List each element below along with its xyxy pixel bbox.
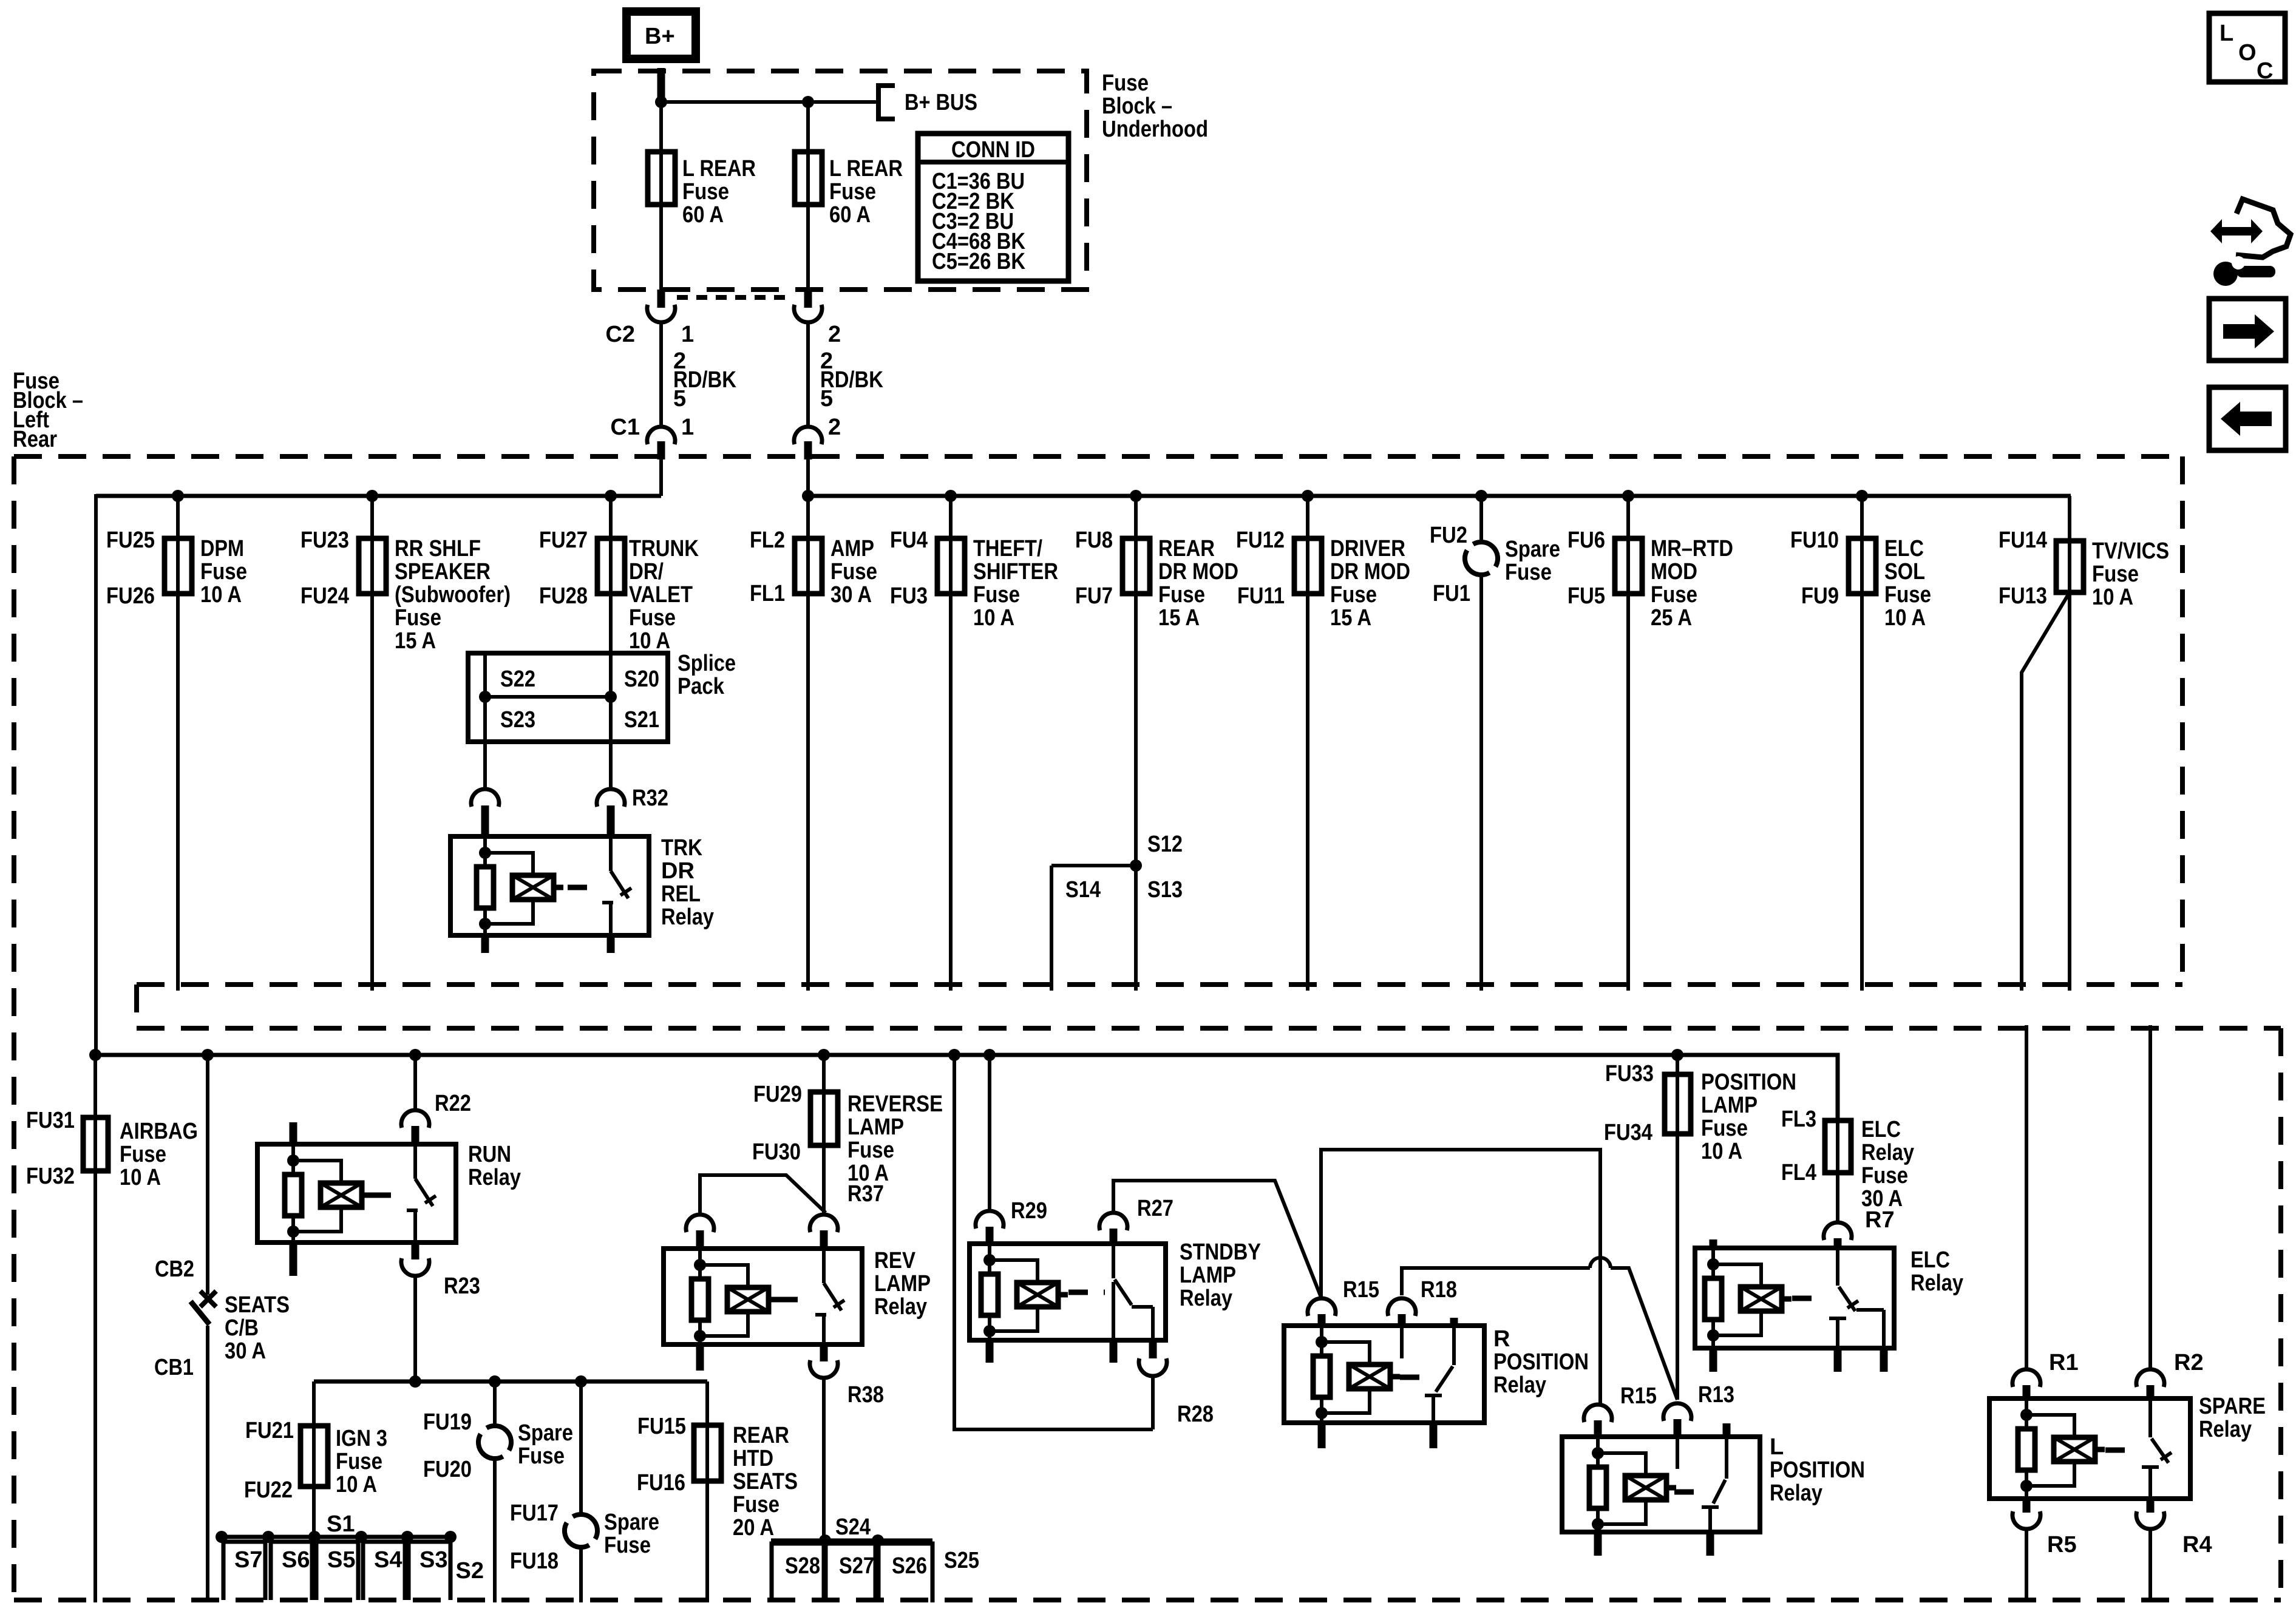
fuse L REAR 1 60A	[648, 152, 675, 205]
label R32	[632, 785, 668, 811]
bus segment B	[808, 494, 2071, 498]
wire channel to R2	[2148, 1025, 2152, 1369]
svg-text:Block –: Block –	[1102, 93, 1172, 119]
svg-text:R28: R28	[1177, 1402, 1214, 1427]
label S2	[456, 1558, 484, 1584]
svg-text:HTD: HTD	[733, 1446, 773, 1471]
label REV LAMP Relay	[874, 1248, 931, 1320]
svg-text:Fuse: Fuse	[604, 1533, 651, 1558]
svg-text:S14: S14	[1065, 877, 1101, 903]
svg-text:FU4: FU4	[890, 527, 928, 553]
fuse block dashed channel top	[137, 982, 2182, 987]
ELC relay contact stub 1	[1834, 1348, 1842, 1372]
svg-text:Fuse: Fuse	[629, 605, 676, 631]
REV relay coil jumper wire	[700, 1175, 826, 1213]
label R38	[847, 1382, 884, 1408]
label SPARE Relay	[2199, 1394, 2266, 1442]
svg-text:FU29: FU29	[753, 1082, 802, 1107]
label pin 1 bottom	[681, 415, 694, 440]
splice pack left wire	[483, 653, 487, 742]
svg-text:1: 1	[681, 322, 694, 347]
svg-text:10 A: 10 A	[629, 628, 670, 654]
svg-text:FU3: FU3	[890, 583, 928, 609]
svg-text:LAMP: LAMP	[1701, 1093, 1758, 1118]
TRK relay dashed link	[568, 885, 601, 890]
svg-text:L: L	[1770, 1434, 1784, 1460]
wire bus to R29	[983, 1049, 996, 1211]
wire channel to R1	[2025, 1025, 2028, 1369]
label CB2	[155, 1256, 194, 1282]
L POS relay dashed link	[1674, 1490, 1700, 1495]
svg-text:RR SHLF: RR SHLF	[395, 536, 481, 561]
svg-text:5: 5	[673, 386, 686, 412]
svg-text:S23: S23	[500, 707, 535, 733]
svg-text:S25: S25	[944, 1548, 979, 1573]
svg-text:Fuse: Fuse	[395, 605, 441, 631]
TRK relay coil bottom stub	[481, 935, 489, 953]
svg-text:FU9: FU9	[1801, 583, 1839, 609]
connector R27 (arc)	[1099, 1213, 1127, 1244]
svg-text:SEATS: SEATS	[225, 1292, 290, 1318]
svg-text:C: C	[2257, 58, 2273, 84]
svg-text:Fuse: Fuse	[2092, 561, 2139, 587]
svg-text:DRIVER: DRIVER	[1330, 536, 1405, 561]
connector R29 (arc)	[976, 1211, 1004, 1244]
bus segment A	[96, 494, 661, 498]
svg-text:Fuse: Fuse	[1158, 582, 1205, 608]
icon forward arrow box	[2209, 299, 2286, 361]
svg-text:S7: S7	[234, 1547, 262, 1573]
svg-text:Splice: Splice	[678, 651, 736, 676]
L POS relay switch	[1702, 1423, 1727, 1532]
ELC relay coil stub	[1710, 1239, 1717, 1248]
svg-text:FU16: FU16	[637, 1470, 685, 1496]
svg-text:LAMP: LAMP	[874, 1271, 931, 1297]
svg-text:Fuse: Fuse	[1330, 582, 1377, 608]
svg-text:STNDBY: STNDBY	[1180, 1239, 1261, 1265]
svg-text:10 A: 10 A	[336, 1472, 377, 1497]
label Fuse Block - Underhood	[1102, 70, 1208, 142]
svg-text:FU2: FU2	[1430, 523, 1467, 548]
SPARE relay switch bottom stub	[2147, 1499, 2155, 1513]
SPARE relay coil internals	[2018, 1398, 2105, 1497]
svg-text:LAMP: LAMP	[847, 1114, 904, 1140]
fuse FL2/FL1 AMP 30A with wire	[750, 490, 877, 991]
ELC relay contact stub 2	[1880, 1348, 1888, 1372]
fuse FU27/FU28 TRUNK DR/VALET 10A	[539, 490, 699, 654]
node splice dot left	[479, 691, 491, 703]
svg-text:FU20: FU20	[423, 1457, 472, 1482]
connector arc TRK coil	[471, 789, 499, 836]
svg-text:FU11: FU11	[1237, 583, 1285, 609]
wire 2 between connectors	[806, 322, 810, 427]
svg-text:S2: S2	[456, 1558, 484, 1584]
R POS relay coil bottom stub	[1318, 1423, 1326, 1448]
svg-text:R27: R27	[1137, 1196, 1173, 1221]
svg-text:FU15: FU15	[637, 1414, 686, 1439]
svg-text:FU22: FU22	[244, 1477, 293, 1503]
svg-text:10 A: 10 A	[1701, 1139, 1742, 1164]
RUN relay coil internals	[285, 1144, 372, 1242]
svg-text:Fuse: Fuse	[518, 1443, 565, 1469]
svg-text:Fuse: Fuse	[336, 1449, 382, 1474]
svg-text:R13: R13	[1698, 1382, 1734, 1408]
wire bus to R28 tie (left drop)	[948, 1049, 1153, 1429]
svg-text:30 A: 30 A	[830, 582, 872, 608]
label R2	[2174, 1350, 2204, 1375]
svg-text:60 A: 60 A	[829, 202, 871, 228]
svg-text:ELC: ELC	[1884, 536, 1924, 561]
node S12 junction dot	[1130, 859, 1142, 872]
connector C2 pin1 (arc)	[647, 305, 675, 322]
svg-text:2: 2	[828, 415, 841, 440]
connector R18 (arc)	[1388, 1298, 1416, 1326]
R POS relay coil internals	[1313, 1326, 1400, 1424]
svg-text:Rear: Rear	[13, 427, 57, 452]
fuse FU8/FU7 REAR DR MOD 15A with wire	[1075, 490, 1238, 991]
wire bus corner to FL3	[1677, 1055, 1838, 1120]
svg-text:LAMP: LAMP	[1180, 1263, 1236, 1288]
connector R32 (arc)	[597, 789, 625, 836]
svg-text:S21: S21	[624, 707, 659, 733]
svg-text:S20: S20	[624, 666, 659, 692]
wire R15 tie horizontal	[1321, 1150, 1600, 1405]
fuse FU4/FU3 THEFT/SHIFTER 10A with wire	[890, 490, 1058, 991]
svg-text:Pack: Pack	[678, 674, 725, 699]
wire B+ feed horizontal	[661, 100, 877, 104]
svg-text:C2: C2	[605, 322, 635, 347]
svg-text:S1: S1	[327, 1511, 355, 1537]
svg-text:REV: REV	[874, 1248, 916, 1273]
fuse block dashed channel bottom	[137, 1026, 2281, 1031]
fuse block left rear dashed border right upper	[2180, 456, 2185, 985]
fuse FU33/FU34 POSITION LAMP 10A	[1604, 1049, 1796, 1164]
fuse FU31/FU32 AIRBAG 10A with wire	[26, 1055, 198, 1602]
svg-text:Fuse: Fuse	[1884, 582, 1931, 608]
svg-text:CONN ID: CONN ID	[951, 137, 1035, 163]
label R POSITION Relay	[1493, 1326, 1589, 1398]
node splice dot right	[605, 691, 617, 703]
B+ BUS terminal bracket	[878, 86, 895, 119]
svg-text:FU14: FU14	[1999, 527, 2047, 553]
svg-text:VALET: VALET	[629, 582, 693, 608]
node sub bus dot R23	[409, 1375, 421, 1388]
fuse FU10/FU9 ELC SOL 10A with wire	[1790, 490, 1931, 991]
label S22	[500, 666, 535, 692]
connector R38 (arc)	[810, 1360, 838, 1378]
svg-text:DR: DR	[661, 858, 695, 884]
wire FU34 to R13	[1676, 1134, 1679, 1400]
sub bus	[314, 1380, 707, 1384]
label S1	[327, 1511, 355, 1537]
STNDBY relay dashed link	[1068, 1290, 1105, 1295]
svg-text:FU21: FU21	[245, 1418, 294, 1443]
label circuit 2 RD/BK 5 (right)	[820, 348, 883, 412]
svg-text:R37: R37	[847, 1181, 884, 1207]
svg-text:REL: REL	[661, 881, 701, 907]
svg-text:FU7: FU7	[1075, 583, 1113, 609]
L POS relay switch bottom stub	[1707, 1532, 1714, 1556]
svg-text:Fuse: Fuse	[200, 559, 247, 585]
svg-text:REAR: REAR	[733, 1423, 789, 1448]
svg-text:FU5: FU5	[1567, 583, 1605, 609]
wire R23 to sub bus	[413, 1276, 417, 1381]
fuse FU6/FU5 MR-RTD MOD 25A with wire	[1567, 490, 1733, 991]
ELC relay coil internals	[1705, 1248, 1792, 1346]
wire R18 riser with hop	[1402, 1258, 1677, 1400]
svg-text:SPARE: SPARE	[2199, 1394, 2266, 1419]
svg-text:FU19: FU19	[423, 1409, 472, 1435]
svg-text:Fuse: Fuse	[847, 1137, 894, 1163]
fuse block left rear dashed border left	[12, 456, 16, 1600]
wire 1 stub into left rear block	[657, 441, 665, 459]
svg-text:Fuse: Fuse	[973, 582, 1020, 608]
svg-text:TRUNK: TRUNK	[629, 536, 699, 561]
R POS relay dashed link	[1400, 1375, 1427, 1380]
wire TV/VICS diagonal branch	[2022, 592, 2070, 991]
STNDBY relay coil bottom stub	[986, 1340, 994, 1363]
svg-text:Relay: Relay	[468, 1165, 521, 1190]
node junction dot 2	[802, 96, 814, 108]
STNDBY relay contact stub 1	[1110, 1340, 1118, 1363]
wire R27 riser	[1113, 1181, 1321, 1297]
relay RUN box	[257, 1144, 456, 1242]
REV relay switch bottom stub	[820, 1344, 828, 1361]
svg-text:CB1: CB1	[154, 1355, 194, 1380]
connector R15 L (arc)	[1584, 1405, 1612, 1437]
svg-text:R7: R7	[1865, 1207, 1895, 1233]
node lower bus dot left	[89, 1049, 101, 1061]
svg-text:AMP: AMP	[830, 536, 874, 561]
L POS relay R13 interior line	[1676, 1437, 1679, 1469]
label S25	[944, 1548, 979, 1573]
svg-text:30 A: 30 A	[225, 1338, 266, 1364]
connector R2 (arc)	[2136, 1369, 2164, 1398]
R POS relay top stub	[1450, 1318, 1458, 1326]
dotted connector tie line	[677, 295, 792, 300]
icon back arrow box	[2209, 387, 2286, 450]
wire splice to TRK relay left	[483, 742, 487, 789]
TRK relay coil internals	[477, 836, 563, 935]
label R28	[1177, 1402, 1214, 1427]
label R5	[2047, 1532, 2077, 1558]
svg-text:FU30: FU30	[752, 1139, 801, 1165]
svg-text:R15: R15	[1620, 1383, 1657, 1409]
svg-text:C1: C1	[610, 415, 640, 440]
svg-text:POSITION: POSITION	[1770, 1457, 1865, 1483]
svg-text:R5: R5	[2047, 1532, 2077, 1558]
svg-text:R15: R15	[1343, 1277, 1379, 1303]
wire FL4 to R7	[1836, 1173, 1839, 1222]
svg-text:Fuse: Fuse	[1701, 1116, 1748, 1141]
svg-text:POSITION: POSITION	[1493, 1349, 1589, 1375]
svg-text:C5=26 BK: C5=26 BK	[932, 249, 1025, 274]
wire 2 stub into left rear block	[804, 441, 812, 459]
ELC relay dashed link	[1792, 1296, 1826, 1301]
svg-text:FL4: FL4	[1781, 1160, 1816, 1185]
svg-text:1: 1	[681, 415, 694, 440]
svg-text:FU12: FU12	[1236, 527, 1285, 553]
label pin 1 top	[681, 322, 694, 347]
svg-text:RUN: RUN	[468, 1142, 511, 1167]
svg-text:Underhood: Underhood	[1102, 117, 1208, 142]
svg-text:O: O	[2238, 40, 2257, 66]
svg-text:Relay: Relay	[1911, 1270, 1963, 1296]
svg-text:TRK: TRK	[661, 835, 702, 861]
svg-text:R23: R23	[444, 1273, 480, 1299]
svg-text:Fuse: Fuse	[1861, 1163, 1908, 1188]
connector R1 (arc)	[2012, 1369, 2040, 1398]
TRK relay switch	[602, 836, 631, 935]
L POS relay coil internals	[1589, 1437, 1676, 1535]
wire fuse2 vertical	[806, 102, 810, 290]
svg-text:S5: S5	[327, 1547, 355, 1573]
svg-text:10 A: 10 A	[200, 582, 242, 608]
svg-text:L REAR: L REAR	[829, 156, 903, 181]
wire trunk through splice	[609, 653, 613, 742]
REV relay coil internals	[691, 1249, 778, 1347]
wire to circuit breaker	[202, 1049, 214, 1295]
svg-text:FU25: FU25	[106, 527, 155, 553]
lower bus	[95, 1053, 1838, 1057]
icon adjust hand with wrench	[2210, 199, 2291, 286]
B+ power symbol box	[627, 12, 696, 59]
svg-text:R38: R38	[847, 1382, 884, 1408]
SPARE relay coil bottom stub	[2023, 1499, 2031, 1513]
svg-text:R22: R22	[435, 1091, 471, 1116]
svg-text:DPM: DPM	[200, 536, 244, 561]
connector R37 (arc)	[810, 1215, 838, 1249]
REV relay switch	[815, 1249, 844, 1344]
wire 2 stub below underhood box	[804, 290, 812, 308]
svg-text:15 A: 15 A	[1158, 605, 1200, 631]
svg-text:S3: S3	[419, 1547, 447, 1573]
svg-text:15 A: 15 A	[1330, 605, 1371, 631]
label Fuse Block - Left Rear	[13, 368, 83, 452]
relay ELC box	[1695, 1248, 1894, 1348]
svg-text:FU26: FU26	[106, 583, 155, 609]
svg-text:ELC: ELC	[1911, 1247, 1950, 1273]
wire C1-2 to bus	[806, 459, 810, 496]
connector C1 pin1 (arc)	[647, 427, 675, 444]
label L REAR fuse 1	[682, 156, 756, 228]
STNDBY relay switch	[1113, 1244, 1153, 1340]
relay TRK DR REL box	[450, 836, 649, 935]
svg-text:CB2: CB2	[155, 1256, 194, 1282]
svg-text:S12: S12	[1147, 832, 1183, 857]
R POS relay switch bottom stub	[1430, 1423, 1438, 1448]
label S24	[835, 1514, 871, 1540]
wire R5 to border	[2025, 1529, 2028, 1602]
svg-text:S22: S22	[500, 666, 535, 692]
wire IGN3 drop	[312, 1381, 316, 1537]
svg-text:S28: S28	[785, 1553, 820, 1579]
svg-text:L: L	[2220, 21, 2233, 46]
svg-text:Fuse: Fuse	[829, 179, 876, 205]
svg-text:FU23: FU23	[301, 527, 349, 553]
svg-text:Relay: Relay	[1861, 1140, 1914, 1165]
svg-text:Spare: Spare	[604, 1510, 659, 1535]
svg-text:B+: B+	[645, 24, 675, 49]
label S12	[1147, 832, 1183, 857]
ELC relay coil bottom stub	[1710, 1348, 1717, 1372]
wire B+ to underhood block (thick stub through dashed edge)	[657, 68, 665, 102]
svg-text:SPEAKER: SPEAKER	[395, 559, 491, 585]
svg-text:SHIFTER: SHIFTER	[973, 559, 1058, 585]
fuse FL3/FL4 ELC Relay 30A	[1781, 1107, 1914, 1212]
svg-text:R2: R2	[2174, 1350, 2204, 1375]
svg-text:Fuse: Fuse	[120, 1142, 166, 1167]
connector R13 (arc)	[1663, 1403, 1691, 1437]
svg-text:MOD: MOD	[1651, 559, 1697, 585]
splice pack box	[468, 653, 668, 742]
relay L POSITION box	[1562, 1437, 1760, 1532]
svg-text:R32: R32	[632, 785, 668, 811]
label R4	[2182, 1532, 2212, 1558]
label SEATS C/B 30A	[225, 1292, 290, 1364]
L POS relay coil bottom stub	[1594, 1532, 1602, 1556]
svg-text:(Subwoofer): (Subwoofer)	[395, 582, 511, 608]
connector R23 (arc)	[401, 1258, 429, 1276]
svg-text:FU33: FU33	[1605, 1061, 1654, 1086]
spare fuse FU17/FU18	[510, 1375, 659, 1602]
svg-text:SEATS: SEATS	[733, 1469, 798, 1494]
svg-text:2: 2	[828, 322, 841, 347]
svg-text:FU24: FU24	[301, 583, 349, 609]
REV relay coil bottom stub	[696, 1344, 704, 1371]
label R7	[1865, 1207, 1895, 1233]
RUN relay switch	[407, 1144, 436, 1242]
label S23	[500, 707, 535, 733]
connector C1 pin2 (arc)	[794, 427, 822, 444]
svg-text:Fuse: Fuse	[1651, 582, 1697, 608]
label R29	[1011, 1198, 1047, 1224]
svg-text:FU10: FU10	[1790, 527, 1839, 553]
label R22	[435, 1091, 471, 1116]
svg-text:S27: S27	[839, 1553, 874, 1579]
wire R38 to S24 bus	[822, 1378, 826, 1541]
fuse FU25/FU26 DPM 10A with wire	[106, 490, 247, 991]
svg-text:REAR: REAR	[1158, 536, 1215, 561]
splice pack tie wire	[485, 695, 611, 699]
svg-text:Relay: Relay	[661, 904, 714, 930]
wire left branch down	[94, 494, 98, 1055]
svg-text:FU32: FU32	[26, 1164, 75, 1189]
connector R4 (arc)	[2136, 1511, 2164, 1529]
svg-text:IGN 3: IGN 3	[336, 1426, 387, 1451]
STNDBY relay contact stub 2 to R28	[1149, 1340, 1157, 1358]
fuse L REAR 2 60A	[795, 152, 822, 205]
svg-text:Fuse: Fuse	[733, 1492, 779, 1517]
label C1	[610, 415, 640, 440]
svg-text:Fuse: Fuse	[682, 179, 729, 205]
wire 1 between connectors	[659, 322, 663, 427]
connector arc REV coil	[686, 1215, 714, 1249]
icon LOC box	[2209, 13, 2285, 84]
label RUN Relay	[468, 1142, 521, 1190]
svg-text:Relay: Relay	[1493, 1372, 1546, 1398]
svg-text:FU27: FU27	[539, 527, 588, 553]
svg-text:S24: S24	[835, 1514, 871, 1540]
fuse block left rear dashed border right lower	[2278, 1028, 2283, 1600]
SPARE relay switch	[2142, 1398, 2172, 1499]
fuse block left rear dashed border top	[14, 454, 2182, 459]
splice bus S7-S3 boxes	[216, 1531, 457, 1600]
label B+ BUS	[905, 90, 977, 115]
svg-text:ELC: ELC	[1861, 1117, 1901, 1142]
connector C2 pin2 (arc)	[794, 305, 822, 322]
svg-text:Relay: Relay	[1770, 1480, 1822, 1506]
